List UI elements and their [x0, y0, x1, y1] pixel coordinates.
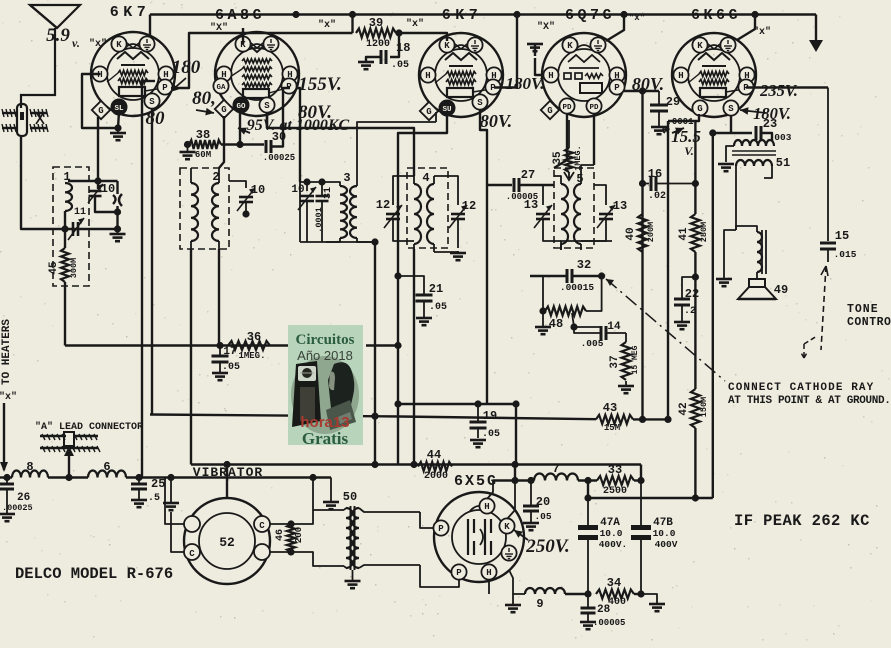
wire H1 to chassis: [82, 74, 118, 128]
svg-text:SL: SL: [114, 105, 124, 113]
wire choke to R33: [578, 477, 597, 484]
node bus-624: [620, 11, 627, 18]
ground T51 primary: [718, 164, 734, 171]
wire L2 left down: [190, 249, 192, 465]
capacitor C20 .05: [523, 481, 552, 531]
ground tube1 cathode: [110, 128, 126, 140]
resistor R36 1MEG: [228, 330, 270, 361]
wire S2 stub: [266, 113, 268, 128]
wire osc bottom left: [299, 182, 301, 242]
svg-text:.00015: .00015: [560, 282, 595, 293]
svg-text:"A" LEAD CONNECTOR: "A" LEAD CONNECTOR: [35, 421, 143, 433]
wire PD2 stub: [593, 114, 595, 165]
resistor R35 1MEG: [552, 120, 583, 180]
svg-text:34: 34: [607, 576, 621, 590]
svg-text:1: 1: [63, 170, 70, 184]
capacitor C27 .00005: [487, 168, 554, 202]
label 80V. tube4: [632, 74, 664, 94]
wire vert 516: [515, 404, 517, 465]
resistor R34 400: [596, 576, 634, 608]
wire vib left pins: [165, 478, 184, 553]
svg-text:AT THIS POINT & AT GROUND.: AT THIS POINT & AT GROUND.: [728, 395, 891, 407]
node R48 left: [539, 307, 546, 314]
svg-text:P: P: [614, 83, 620, 93]
wire sec down: [735, 176, 737, 230]
svg-text:CONTROL.: CONTROL.: [847, 316, 891, 329]
wire heater long vert: [141, 81, 143, 478]
capacitor C23 .003: [713, 117, 792, 143]
wire GO2 riser: [239, 113, 241, 145]
label "X" tube1: [89, 38, 107, 50]
tube label 6K7 (IF amp): [442, 7, 483, 24]
coil L3 oscillator: [326, 122, 436, 242]
tube label 6Q7G: [565, 7, 615, 24]
svg-text:9: 9: [536, 597, 543, 611]
svg-text:G: G: [98, 106, 103, 116]
wire vert 487: [486, 185, 488, 404]
svg-text:"x": "x": [406, 18, 424, 30]
svg-text:P: P: [456, 568, 462, 578]
capacitor C15 .015: [820, 88, 857, 263]
svg-text:TONE: TONE: [847, 303, 879, 316]
svg-text:.00025: .00025: [263, 153, 295, 163]
resistor R40 200M: [625, 214, 656, 252]
wire vib right lower: [270, 552, 344, 566]
wire R33 right: [634, 477, 645, 484]
svg-text:S: S: [477, 98, 483, 108]
svg-text:37: 37: [609, 355, 621, 368]
svg-text:.02: .02: [648, 191, 666, 202]
label 80 below tube1: [146, 108, 166, 129]
svg-text:2500: 2500: [603, 486, 627, 497]
svg-text:155V.: 155V.: [298, 74, 341, 95]
wire P2 to osc rail: [297, 88, 300, 182]
trimmer C13a: [524, 185, 561, 241]
svg-text:60M: 60M: [195, 150, 211, 160]
label 250V.: [514, 530, 570, 557]
wire osc top: [300, 178, 326, 185]
capacitor C21 .05: [398, 276, 447, 325]
svg-text:29: 29: [666, 95, 680, 109]
coil L6: [88, 460, 126, 478]
svg-text:1200: 1200: [366, 39, 390, 50]
svg-text:50: 50: [343, 490, 357, 504]
svg-text:36: 36: [247, 330, 261, 344]
wire vert 668: [667, 121, 669, 419]
trimmer C10c: [291, 182, 316, 242]
capacitor C30 .00025: [221, 88, 295, 163]
svg-text:400V.: 400V.: [599, 539, 628, 550]
node y465 x515: [511, 461, 518, 468]
svg-text:IF PEAK 262 KC: IF PEAK 262 KC: [734, 512, 870, 530]
node C32 right: [598, 272, 605, 279]
svg-text:H: H: [486, 568, 491, 578]
trimmer C12b: [434, 176, 476, 248]
transformer T4 dashed box: [407, 168, 448, 248]
antenna lead-in connector: [2, 104, 48, 136]
coil L2 secondary: [212, 168, 219, 249]
resistor R37 15MEG: [609, 333, 640, 393]
label "X" near res39: [406, 18, 424, 30]
ground R48: [535, 313, 551, 334]
capacitor C28 .00005: [580, 594, 625, 629]
svg-text:400V: 400V: [655, 539, 678, 550]
ground below gang: [110, 229, 126, 241]
svg-text:49: 49: [774, 283, 788, 297]
coil L2 primary: [191, 168, 198, 249]
svg-text:16: 16: [648, 167, 662, 181]
svg-text:8: 8: [26, 460, 33, 474]
svg-text:P: P: [438, 524, 444, 534]
wire AVC right of watermark: [366, 342, 402, 349]
label 5.9v: [46, 25, 80, 50]
label "X" heaters: [0, 391, 17, 403]
svg-text:48: 48: [549, 317, 563, 331]
capacitor C32 .00015: [530, 258, 602, 293]
svg-text:6K7: 6K7: [110, 4, 151, 21]
wire G2 to L2: [219, 116, 224, 168]
wire y404 run: [394, 400, 519, 407]
wire A-lead to bus: [68, 456, 70, 478]
wire L9 to C28: [565, 590, 592, 597]
capacitor C17 .05: [212, 346, 241, 381]
resistor R42 150M: [678, 389, 709, 428]
svg-text:G: G: [426, 107, 431, 117]
capacitor C29 .0001: [650, 91, 694, 134]
svg-text:200M: 200M: [646, 222, 656, 242]
svg-text:K: K: [444, 41, 450, 51]
resistor R45 300M: [48, 229, 79, 282]
svg-text:G: G: [697, 104, 702, 114]
node bus-352: [349, 11, 356, 18]
wire box5 bottom rail: [561, 241, 612, 250]
wire vibrator top: [223, 461, 230, 498]
wire top B+ bus: [150, 13, 816, 15]
coil L4 secondary: [427, 176, 434, 252]
text DELCO MODEL R-676: [15, 565, 173, 583]
svg-text:TO HEATERS: TO HEATERS: [1, 319, 13, 385]
wire vib right upper: [270, 474, 344, 524]
svg-text:Año 2018: Año 2018: [297, 348, 353, 363]
svg-text:21: 21: [429, 282, 443, 296]
svg-text:280M: 280M: [699, 222, 709, 242]
label 235V.: [759, 81, 798, 100]
transformer T50: [343, 490, 420, 570]
svg-text:32: 32: [577, 258, 591, 272]
node res39 right: [395, 29, 402, 36]
svg-text:CONNECT CATHODE RAY: CONNECT CATHODE RAY: [728, 382, 874, 394]
wire osc to anode grid: [435, 112, 437, 122]
svg-text:.005: .005: [581, 338, 604, 349]
ground R38: [180, 146, 196, 159]
wire H6 bottom: [488, 580, 490, 594]
resistor R44 2000: [418, 448, 452, 482]
speaker voice coil: [736, 226, 766, 278]
capacitor C25 .5: [131, 477, 165, 507]
svg-text:45: 45: [48, 261, 60, 275]
resistor R48: [543, 276, 602, 331]
wire bus drop right end + ground arrow: [809, 15, 823, 53]
coil L9: [525, 588, 565, 611]
svg-text:10.0: 10.0: [600, 528, 623, 539]
svg-text:235V.: 235V.: [759, 81, 798, 100]
ground under C18: [358, 62, 374, 69]
svg-text:25: 25: [151, 477, 165, 491]
tube label 6K6G: [691, 7, 741, 24]
svg-text:PD: PD: [589, 104, 599, 112]
transformer T51 output: [726, 140, 790, 178]
wire bus seg3: [126, 474, 331, 481]
svg-text:40: 40: [625, 227, 637, 240]
wire shield1 riser: [149, 15, 151, 37]
svg-text:C: C: [189, 549, 195, 559]
wire R42 down: [694, 428, 696, 498]
svg-text:H: H: [678, 71, 683, 81]
svg-text:G: G: [221, 105, 226, 115]
node bus-755: [751, 11, 758, 18]
wire S1 down: [151, 109, 153, 415]
svg-text:Circuitos: Circuitos: [296, 332, 355, 348]
text 6X5G: [454, 473, 498, 490]
label 180V. tube3: [506, 74, 545, 93]
svg-text:7: 7: [552, 462, 559, 476]
svg-text:GO: GO: [236, 103, 246, 111]
svg-text:P: P: [162, 83, 168, 93]
svg-text:S: S: [149, 97, 155, 107]
svg-text:"X": "X": [210, 22, 228, 34]
wire S3 to C27: [480, 110, 487, 185]
resistor R46 200: [275, 520, 304, 555]
svg-text:.05: .05: [429, 302, 447, 313]
svg-text:200: 200: [294, 527, 304, 543]
node bus-517: [513, 11, 520, 18]
trimmer C10b: [229, 181, 265, 218]
wire y480 rect out: [493, 465, 535, 485]
svg-text:150M: 150M: [699, 397, 709, 417]
ground tube4 grid return: [527, 44, 543, 75]
node P4-642: [639, 87, 646, 94]
wire R34 right: [634, 590, 645, 597]
svg-text:S: S: [728, 104, 734, 114]
wire L9 left ground: [505, 570, 525, 612]
svg-text:44: 44: [427, 448, 441, 462]
node AVC junction: [216, 342, 223, 349]
svg-text:3: 3: [343, 171, 350, 185]
node C23 left: [709, 129, 716, 136]
node SL1 gnd: [114, 124, 121, 131]
svg-text:4: 4: [422, 171, 429, 185]
svg-text:V.: V.: [684, 144, 693, 158]
svg-text:Gratis: Gratis: [302, 429, 349, 448]
capacitor C31 .0001: [314, 182, 334, 242]
wire SU3 to cathode net: [398, 115, 447, 150]
node C26: [3, 474, 10, 481]
wire bus755 drop: [737, 15, 755, 41]
svg-text:41: 41: [678, 227, 690, 241]
svg-text:6X5G: 6X5G: [454, 473, 498, 490]
wire K3 riser from second bus: [399, 33, 447, 41]
capacitor C22 .2: [674, 277, 699, 329]
svg-text:5.9: 5.9: [46, 25, 70, 46]
text tone control: [847, 303, 891, 329]
svg-text:46: 46: [275, 529, 286, 541]
svg-text:52: 52: [219, 535, 235, 550]
svg-text:39: 39: [369, 16, 383, 30]
capacitor C47B electrolytic: [631, 481, 678, 595]
wire P4 line: [623, 90, 659, 92]
svg-text:31: 31: [323, 187, 334, 199]
label 80V. tube3: [480, 111, 512, 131]
resistor R43 15M: [596, 401, 633, 433]
svg-text:13: 13: [524, 198, 538, 212]
wire bus drop 331: [323, 478, 339, 510]
node coil1 bottom: [61, 225, 68, 232]
svg-text:SU: SU: [442, 106, 452, 114]
capacitor C14 .005: [574, 321, 626, 349]
tube label 6K7 (RF amp): [110, 4, 151, 21]
wire R48 tap: [570, 313, 601, 331]
wire bottom supply bus: [0, 476, 12, 478]
wire vert 398: [397, 150, 399, 465]
wire y418 right: [633, 416, 672, 423]
svg-text:"X": "X": [537, 21, 555, 33]
svg-text:"x": "x": [318, 19, 336, 31]
text VIBRATOR: [193, 465, 263, 480]
wire vert 642: [641, 91, 643, 419]
label 180 with arrow: [170, 57, 201, 92]
transformer T1 dashed box: [53, 167, 89, 286]
svg-text:95V. at 1000KC: 95V. at 1000KC: [247, 117, 350, 134]
wire heater drop: [0, 403, 8, 472]
node GO2: [236, 141, 243, 148]
svg-text:43: 43: [603, 401, 617, 415]
svg-text:19: 19: [483, 409, 497, 423]
svg-text:H: H: [548, 71, 553, 81]
svg-text:K: K: [116, 40, 122, 50]
resistor R38 60M: [189, 128, 221, 160]
text TO HEATERS: [1, 319, 13, 385]
text connect cathode ray: [728, 382, 891, 407]
ground under box4: [434, 251, 466, 260]
svg-text:12: 12: [462, 199, 476, 213]
tube U1 6K7 RF amplifier: [91, 32, 175, 119]
tuning capacitor C-gang a: [113, 181, 122, 229]
wire vert 713: [712, 133, 714, 498]
tube U4 6Q7G det/AVC/AF: [541, 33, 626, 119]
wire osc bottom: [300, 238, 379, 245]
tone control dashes: [800, 266, 828, 358]
svg-text:"x": "x": [0, 391, 17, 403]
svg-text:10: 10: [101, 182, 115, 196]
capacitor C19 .05: [470, 404, 501, 447]
dashed line connect cathode ray: [606, 279, 725, 381]
svg-text:"x": "x": [629, 13, 645, 23]
svg-text:20: 20: [536, 495, 550, 509]
label "X" tube5: [753, 26, 771, 38]
wire AVC line y346: [65, 344, 288, 346]
ground speaker: [716, 230, 736, 286]
svg-text:K: K: [567, 41, 573, 51]
node coil1 top: [94, 177, 101, 184]
svg-text:10: 10: [251, 183, 265, 197]
node C22 tap: [692, 273, 699, 280]
svg-text:180V.: 180V.: [506, 74, 545, 93]
wire bus to res33: [640, 465, 642, 481]
wire L2 right down: [218, 249, 220, 346]
transformer T2 dashed box: [180, 168, 229, 249]
resistor R41 280M: [678, 121, 709, 252]
svg-text:15: 15: [835, 229, 849, 243]
svg-text:38: 38: [196, 128, 210, 142]
wire bus seg2: [48, 474, 88, 481]
svg-text:42: 42: [678, 402, 690, 415]
wire S5 stub: [730, 116, 732, 133]
svg-text:13: 13: [613, 199, 627, 213]
wire plate bus second level: [171, 33, 353, 88]
label "x" mid-bus: [318, 19, 336, 31]
wire PD1 stub: [554, 114, 567, 168]
svg-text:33: 33: [608, 463, 622, 477]
svg-text:27: 27: [521, 168, 535, 182]
capacitor C16 .02: [639, 167, 699, 202]
trimmer C12a: [376, 176, 414, 241]
svg-text:.00025: .00025: [2, 503, 33, 513]
svg-text:28: 28: [597, 604, 611, 616]
node y418 x375: [371, 413, 378, 420]
node cap21 tap: [394, 272, 401, 279]
wire L4 sec down: [413, 249, 415, 465]
svg-text:.05: .05: [222, 362, 240, 373]
svg-text:12: 12: [376, 198, 390, 212]
transformer T5b dashed box: [554, 168, 594, 248]
wire K2 riser: [242, 28, 244, 44]
wire B row y498: [584, 481, 712, 502]
svg-text:1MEG.: 1MEG.: [238, 351, 265, 361]
trimmer C11: [65, 207, 118, 240]
svg-text:.05: .05: [482, 429, 500, 440]
node R38 left: [184, 141, 191, 148]
coil L1 primary: [65, 183, 72, 229]
label 95V at 1000KC: [238, 117, 350, 135]
svg-text:300M: 300M: [69, 258, 79, 278]
wire H6 top riser: [487, 481, 493, 500]
tube U5 6K6G output: [672, 33, 756, 117]
label "X" tube2: [210, 22, 228, 34]
svg-text:11: 11: [74, 207, 86, 218]
label 180V. tube5: [740, 104, 791, 123]
tube U2 6A8G converter: [213, 32, 299, 118]
svg-text:2000: 2000: [424, 471, 448, 482]
trimmer C10: [88, 181, 118, 212]
svg-text:v.: v.: [72, 36, 80, 50]
tube U3 6K7 IF amplifier: [419, 33, 503, 120]
svg-text:"x": "x": [753, 26, 771, 38]
wire R45 down: [64, 282, 66, 346]
svg-text:18: 18: [396, 41, 410, 55]
svg-text:.05: .05: [391, 60, 409, 71]
svg-text:DELCO MODEL R-676: DELCO MODEL R-676: [15, 565, 173, 583]
svg-text:15 MEG: 15 MEG: [631, 345, 640, 374]
svg-text:10.0: 10.0: [653, 528, 676, 539]
node y465 x414: [410, 461, 417, 468]
wire P5 plate line: [746, 86, 828, 88]
label "X" tube4: [537, 21, 555, 33]
wire K6 riser: [507, 481, 515, 520]
svg-text:.0001: .0001: [314, 207, 324, 233]
node bus-296: [292, 11, 299, 18]
svg-text:PD: PD: [562, 104, 572, 112]
wire y465 bus: [191, 463, 641, 465]
